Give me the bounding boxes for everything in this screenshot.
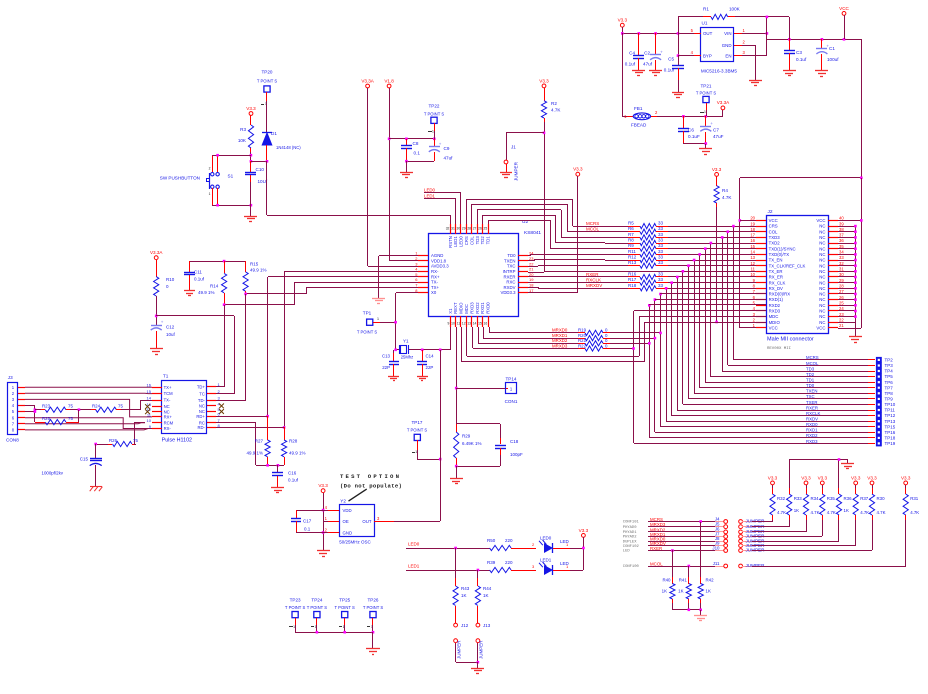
- svg-text:NC: NC: [819, 292, 825, 297]
- svg-text:RXD(0)/RX: RXD(0)/RX: [769, 292, 791, 297]
- svg-text:LED0: LED0: [540, 536, 552, 541]
- ground C7: [699, 149, 712, 155]
- ground C1: [815, 71, 828, 77]
- svg-text:RXER: RXER: [806, 405, 818, 410]
- svg-text:RXC: RXC: [506, 280, 515, 285]
- svg-text:TD3: TD3: [806, 366, 815, 371]
- svg-text:MRXDV: MRXDV: [586, 283, 602, 288]
- wire FB1 to V3.3A: [657, 110, 723, 118]
- svg-text:RXD3: RXD3: [806, 439, 818, 444]
- wire V3.3 to FB1: [622, 33, 627, 117]
- svg-text:0.1: 0.1: [414, 151, 421, 156]
- svg-text:RXD2: RXD2: [475, 302, 480, 314]
- svg-text:4.7K: 4.7K: [811, 510, 820, 515]
- jumper J4 (MCRS): [623, 516, 765, 524]
- ground R29: [450, 479, 463, 484]
- wire J3 pin7 to T1 RCM: [25, 423, 145, 424]
- svg-text:+: +: [161, 320, 164, 325]
- U2 pin 25 TD1: [484, 224, 491, 244]
- net label LED1 (U2): [424, 193, 456, 224]
- svg-text:10uf: 10uf: [166, 332, 176, 337]
- test point TP12: [806, 411, 896, 419]
- ground C11: [184, 291, 195, 296]
- J2 pin 16 TXD2: [750, 238, 780, 245]
- svg-text:33: 33: [658, 232, 664, 237]
- diode D1 1N4148 (NC): [262, 101, 301, 161]
- svg-text:5: 5: [12, 409, 15, 414]
- svg-text:3: 3: [743, 50, 746, 55]
- U2 pin 31 LED1: [451, 224, 458, 247]
- svg-text:33: 33: [658, 249, 664, 254]
- Y2 pin stubs: [325, 505, 394, 533]
- ground C2: [649, 71, 662, 76]
- resistor R27 49.9 1%: [246, 416, 270, 465]
- svg-text:V3.3: V3.3: [851, 475, 861, 480]
- svg-text:C15: C15: [80, 457, 89, 462]
- svg-text:C9: C9: [444, 146, 450, 151]
- capacitor C10 10uf: [245, 161, 268, 205]
- test point TP24: [307, 598, 328, 630]
- svg-text:1: 1: [704, 110, 706, 114]
- wire VCC rail: [767, 17, 861, 41]
- svg-text:TD2: TD2: [480, 236, 485, 245]
- svg-text:NC: NC: [199, 404, 205, 409]
- test point TP17: [407, 420, 428, 454]
- svg-text:NC: NC: [819, 275, 825, 280]
- svg-text:LED1: LED1: [540, 558, 552, 563]
- svg-text:T POINT S: T POINT S: [307, 605, 328, 610]
- wire R3 bottom to S1 top junction: [250, 152, 253, 163]
- svg-text:J13: J13: [483, 623, 491, 628]
- test point TP3: [806, 361, 893, 369]
- ground C3: [783, 71, 796, 76]
- svg-text:NC: NC: [819, 224, 825, 229]
- svg-text:VCC: VCC: [839, 6, 849, 11]
- U2 pin 5 RX+: [415, 272, 440, 279]
- svg-text:75: 75: [68, 416, 73, 421]
- wire TXEN row feed: [528, 260, 605, 262]
- svg-text:2: 2: [655, 110, 658, 115]
- jumper J10 (RXER): [623, 545, 765, 553]
- U2 pin 32 RSTN: [446, 224, 453, 248]
- svg-text:AGND: AGND: [431, 253, 443, 258]
- U2 pin 15 RXD1: [478, 302, 485, 327]
- J2 pin 15 TXD(1)/SYNC: [750, 244, 795, 251]
- wire J3 pin1 to T1 TX+: [25, 386, 152, 388]
- jumper J12: [454, 623, 469, 662]
- capacitor C17 0.1: [291, 510, 323, 533]
- svg-text:TXD2: TXD2: [769, 241, 781, 246]
- wire J10 row to R30: [671, 549, 872, 552]
- U2 pin 30 LED0: [457, 224, 464, 247]
- svg-text:R26: R26: [109, 438, 118, 443]
- svg-text:X1: X1: [448, 308, 453, 314]
- svg-text:4: 4: [691, 50, 694, 55]
- J2 pin 21 VCC: [816, 323, 844, 330]
- J2 pin 22 NC: [819, 318, 844, 325]
- svg-text:22: 22: [529, 261, 534, 266]
- U2 pin 9 X1: [448, 308, 453, 327]
- capacitor C18 100pF: [495, 424, 523, 466]
- svg-text:SW PUSHBUTTON: SW PUSHBUTTON: [160, 176, 200, 181]
- svg-text:NC: NC: [819, 320, 825, 325]
- svg-text:C3: C3: [796, 50, 802, 55]
- ground osc: [317, 551, 330, 557]
- svg-text:EN: EN: [725, 53, 731, 58]
- svg-text:NC: NC: [819, 246, 825, 251]
- svg-text:19: 19: [529, 277, 534, 282]
- svg-text:15: 15: [478, 322, 482, 326]
- svg-text:R30: R30: [877, 496, 886, 501]
- svg-text:PHYAD0: PHYAD0: [623, 526, 637, 530]
- capacitor C12 10uf: [151, 320, 176, 349]
- wire J2 pin40 VCC: [838, 178, 863, 329]
- U2 pin 6 TX-: [415, 277, 438, 284]
- svg-text:18: 18: [750, 227, 755, 232]
- svg-text:V3.3: V3.3: [579, 528, 589, 533]
- svg-text:X0: X0: [431, 290, 437, 295]
- power flag V3.3 (R4): [712, 167, 722, 186]
- wire R40-R42 common to ground: [672, 609, 707, 621]
- svg-text:TP24: TP24: [311, 598, 322, 603]
- wire TXC row feed: [528, 266, 605, 267]
- U2 pin 27 TD3: [473, 224, 480, 244]
- svg-text:7: 7: [12, 421, 15, 426]
- J2 pin 2 MDIO: [753, 318, 781, 325]
- resistor R26 75: [94, 423, 145, 447]
- power flag V3.3 (R31): [901, 475, 911, 485]
- net label MCOL: [586, 227, 605, 232]
- J2 pin 26 NC: [819, 295, 844, 302]
- svg-text:RX+: RX+: [164, 415, 173, 420]
- wire MDIO route: [461, 322, 766, 362]
- svg-text:2: 2: [209, 167, 211, 171]
- resistor R33 1K: [787, 460, 803, 527]
- svg-text:33: 33: [658, 238, 664, 243]
- ground J1: [500, 173, 512, 178]
- svg-text:V3.3A: V3.3A: [150, 250, 163, 255]
- wire net RXD2 to TP18: [648, 304, 871, 438]
- wire V3.3 output rail: [621, 32, 694, 35]
- svg-text:4.7K: 4.7K: [877, 510, 886, 515]
- svg-text:RXD(1): RXD(1): [769, 297, 784, 302]
- svg-text:V3.3: V3.3: [768, 475, 778, 480]
- resistor R30 4.7K: [869, 485, 885, 550]
- svg-text:7: 7: [415, 283, 418, 288]
- svg-text:R29: R29: [462, 434, 471, 439]
- resistor R44 1K: [475, 570, 491, 623]
- J2 pin 6 RXD(1): [753, 295, 784, 302]
- IC U2 KS8041: [429, 219, 542, 317]
- svg-text:0: 0: [166, 284, 169, 289]
- svg-text:25: 25: [484, 227, 488, 231]
- svg-text:R35: R35: [827, 496, 836, 501]
- svg-text:R10: R10: [166, 277, 175, 282]
- svg-text:TXEN: TXEN: [806, 389, 817, 394]
- svg-text:C12: C12: [166, 325, 175, 330]
- wire R10 to C12: [155, 296, 158, 325]
- resistor R39 220: [487, 560, 536, 573]
- svg-text:T POINT S: T POINT S: [257, 79, 278, 84]
- J2 pin 35 NC: [819, 244, 844, 251]
- svg-text:15: 15: [750, 244, 755, 249]
- svg-text:C5: C5: [668, 57, 674, 62]
- svg-text:BYP: BYP: [703, 53, 712, 58]
- J2 pin 10 RX_ER: [750, 272, 783, 279]
- wire R27 R28 common: [256, 464, 284, 473]
- U2 pin 2 VDD1.8: [415, 256, 446, 263]
- J2 pin 1 VCC: [753, 323, 778, 330]
- svg-text:REXT: REXT: [453, 302, 458, 314]
- jumper J7 (MRXD1): [623, 531, 765, 539]
- svg-text:PHYAD2: PHYAD2: [623, 536, 637, 540]
- svg-text:0.1uf: 0.1uf: [288, 478, 299, 483]
- svg-text:LED0: LED0: [424, 188, 436, 193]
- svg-text:0.1uf: 0.1uf: [664, 68, 675, 73]
- resistor R37 4.7K: [853, 485, 869, 546]
- wire jumpers to ground: [456, 661, 479, 668]
- svg-text:V3.3: V3.3: [573, 167, 583, 172]
- svg-text:J10: J10: [712, 545, 720, 550]
- svg-text:R41: R41: [679, 578, 688, 583]
- svg-text:TD2: TD2: [806, 372, 815, 377]
- test point TP1: [357, 311, 380, 335]
- resistor R15 49.9 1%: [243, 261, 267, 294]
- wire net TD3 to TP4: [721, 236, 871, 371]
- resistor R3 10K: [238, 121, 254, 152]
- svg-text:0.1: 0.1: [304, 527, 311, 532]
- wire C6 C7 common to ground: [683, 142, 707, 149]
- svg-text:13: 13: [750, 255, 755, 260]
- wire net RXD1 to TP16: [654, 298, 871, 432]
- wire TD3 row feed: [561, 237, 605, 239]
- wire net RXD0 to TP15: [659, 293, 871, 427]
- svg-text:22P: 22P: [426, 365, 434, 370]
- svg-text:RXD0: RXD0: [486, 302, 491, 314]
- svg-text:R32: R32: [777, 496, 786, 501]
- wire U2 RXD3 down: [488, 332, 490, 334]
- svg-text:33: 33: [658, 243, 664, 248]
- svg-text:R25: R25: [42, 416, 51, 421]
- svg-text:R27: R27: [255, 439, 264, 444]
- svg-text:CONF102: CONF102: [623, 545, 640, 549]
- svg-text:COL: COL: [469, 236, 474, 245]
- svg-text:NC: NC: [819, 252, 825, 257]
- svg-text:12: 12: [750, 261, 755, 266]
- wire U2 RXD2 down: [482, 332, 484, 334]
- svg-text:R4: R4: [722, 188, 728, 193]
- test point TP22: [424, 104, 445, 134]
- svg-text:18: 18: [529, 283, 534, 288]
- wire RXCLK feed: [528, 281, 605, 284]
- wire 1K pulldown bracket to ground: [789, 458, 854, 468]
- resistor R24 75: [91, 400, 152, 412]
- svg-text:R17: R17: [628, 277, 637, 282]
- wire net RXD3 to TP19: [634, 311, 872, 444]
- jumper J8 (MRXD0): [623, 536, 765, 544]
- svg-text:4: 4: [415, 267, 418, 272]
- svg-text:TP11: TP11: [885, 408, 896, 413]
- svg-text:VCC: VCC: [769, 218, 778, 223]
- wire V3.3 to VDD3.3 pin: [528, 292, 578, 294]
- resistor R5 33: [605, 221, 766, 229]
- svg-text:TX_EN: TX_EN: [769, 258, 783, 263]
- capacitor C8 0.1: [401, 139, 420, 161]
- wire crystal row to X1: [394, 327, 451, 351]
- svg-text:R16: R16: [628, 272, 637, 277]
- svg-text:LED1: LED1: [424, 193, 436, 198]
- capacitor C15 1000pf/2kv: [42, 444, 102, 487]
- svg-text:T POINT S: T POINT S: [696, 91, 717, 96]
- wire REXT down: [455, 327, 458, 424]
- J2 pin 19 CRS: [750, 221, 777, 228]
- svg-text:2: 2: [325, 527, 328, 532]
- oscillator Y2 50/25MHz OSC: [339, 498, 374, 544]
- power flag V1.8: [384, 78, 394, 261]
- svg-text:1: 1: [743, 28, 746, 33]
- J2 pin 12 TX_CLK/REF_CLK: [750, 261, 805, 268]
- wire J3 pin4 pin5 termination: [25, 406, 36, 423]
- svg-text:R13: R13: [628, 260, 637, 265]
- svg-text:C2: C2: [644, 51, 650, 56]
- wire J4 row to R32: [699, 520, 772, 523]
- svg-text:22: 22: [839, 318, 844, 323]
- pin 2 GND stub: [734, 40, 746, 46]
- svg-text:NC: NC: [819, 263, 825, 268]
- J2 pin 39 NC: [819, 221, 844, 228]
- svg-text:11: 11: [457, 322, 461, 326]
- svg-text:S1: S1: [228, 174, 234, 179]
- svg-text:TXEN: TXEN: [504, 258, 515, 263]
- resistor R13 33: [605, 260, 766, 268]
- svg-text:11: 11: [751, 267, 756, 272]
- svg-text:1: 1: [432, 130, 434, 134]
- svg-text:40: 40: [839, 216, 844, 221]
- svg-text:0.1uf: 0.1uf: [796, 57, 807, 62]
- svg-text:COL: COL: [769, 229, 778, 234]
- svg-text:RXD1: RXD1: [480, 302, 485, 314]
- J2 pin 5 RXD2: [753, 301, 781, 308]
- wire MRXDV feed: [528, 287, 605, 289]
- svg-text:TP17: TP17: [412, 420, 423, 425]
- svg-text:MDC: MDC: [464, 304, 469, 314]
- svg-text:4: 4: [325, 505, 328, 510]
- wire net TD2 to TP5: [710, 242, 871, 377]
- svg-text:TP20: TP20: [262, 70, 273, 75]
- resistor R10 0: [154, 277, 175, 296]
- ground (reset): [244, 205, 257, 222]
- svg-text:RX+: RX+: [431, 274, 440, 279]
- J2 pin 27 NC: [819, 289, 844, 296]
- svg-text:R42: R42: [706, 578, 715, 583]
- svg-text:26: 26: [478, 227, 482, 231]
- svg-text:33: 33: [658, 277, 664, 282]
- svg-text:R5: R5: [628, 221, 634, 226]
- resistor R18 33: [605, 283, 766, 291]
- svg-text:50/25MHz OSC: 50/25MHz OSC: [339, 540, 371, 545]
- svg-text:NC: NC: [819, 314, 825, 319]
- svg-text:MDIO: MDIO: [769, 320, 781, 325]
- svg-text:AVDD3.3: AVDD3.3: [431, 264, 449, 269]
- svg-text:TP21: TP21: [701, 84, 712, 89]
- U2 pin 13 RXD3: [467, 302, 474, 327]
- wire TD1 row feed: [550, 248, 605, 250]
- J2 pin 40 VCC: [816, 216, 844, 223]
- J2 pin 24 NC: [819, 306, 844, 313]
- jumper J5 (MRXD3): [623, 522, 765, 530]
- svg-text:100pF: 100pF: [510, 452, 523, 457]
- power flag V3.3 (regulator output): [618, 18, 628, 33]
- svg-text:TX_ER: TX_ER: [769, 269, 783, 274]
- wire net TD0 to TP7: [698, 253, 871, 388]
- LED LED1: [539, 558, 583, 575]
- svg-text:220: 220: [505, 538, 513, 543]
- svg-text:TX_CLK/REF_CLK: TX_CLK/REF_CLK: [769, 263, 806, 268]
- jumper J13: [476, 623, 491, 662]
- power flag V3.3 (INTRP pull-up): [539, 78, 549, 101]
- svg-text:49.9 1%: 49.9 1%: [289, 451, 306, 456]
- svg-text:MIC5216-3.3BM5: MIC5216-3.3BM5: [701, 69, 737, 74]
- U2 pin 20 RXER: [504, 272, 535, 279]
- svg-text:TP4: TP4: [885, 369, 894, 374]
- svg-text:C13: C13: [382, 354, 391, 359]
- J2 pin 30 NC: [819, 272, 844, 279]
- test point TP13: [806, 417, 896, 425]
- svg-text:RXDV: RXDV: [504, 285, 516, 290]
- net label LED0 (U2): [424, 188, 461, 225]
- wire S1 bottom to C10 bottom: [212, 204, 252, 207]
- J2 pin 37 NC: [819, 233, 844, 240]
- svg-text:CON1: CON1: [505, 399, 518, 404]
- U2 pin 22 TXC: [507, 261, 534, 268]
- power flag VCC: [839, 6, 849, 39]
- wire S1 top to R3 bottom: [212, 154, 251, 157]
- test point TP6: [806, 378, 893, 386]
- svg-text:V3.3: V3.3: [318, 483, 328, 488]
- net label MCRS: [586, 221, 605, 227]
- wire J3 pin8 row: [25, 429, 152, 430]
- svg-text:KS8041: KS8041: [524, 230, 541, 236]
- resistor R34 4.7K: [803, 485, 819, 532]
- wire TD2 over-route: [483, 215, 587, 243]
- svg-text:TP14: TP14: [506, 377, 517, 382]
- svg-text:9: 9: [448, 322, 450, 326]
- svg-text:49.9 1%: 49.9 1%: [198, 290, 215, 295]
- wire net RXDV to TP13: [665, 287, 871, 422]
- capacitor C6 0.1uF: [678, 116, 700, 144]
- svg-text:4.7K: 4.7K: [827, 510, 836, 515]
- test point TP26: [363, 598, 384, 630]
- svg-text:RXD2: RXD2: [769, 303, 781, 308]
- ground TP23-26: [366, 632, 380, 655]
- svg-text:TP13: TP13: [885, 419, 896, 424]
- J2 pin 3 MDC: [753, 312, 779, 319]
- svg-text:1000pf/2kv: 1000pf/2kv: [42, 471, 64, 476]
- svg-text:21: 21: [529, 267, 534, 272]
- svg-text:V3.3: V3.3: [712, 167, 722, 172]
- U2 pin 24 TD0: [507, 251, 534, 258]
- test point TP14 CON1: [456, 377, 518, 405]
- svg-text:C6: C6: [688, 128, 694, 133]
- transformer T1 Pulse H1102: [145, 374, 224, 444]
- capacitor C2 47uf: [643, 33, 663, 70]
- J2 pin 33 NC: [819, 255, 844, 262]
- chassis ground C15: [90, 487, 103, 492]
- svg-text:REV00X MII: REV00X MII: [767, 347, 791, 351]
- U2 pin 7 TX+: [415, 283, 439, 290]
- svg-text:NC: NC: [819, 303, 825, 308]
- wire R4 to MDIO row: [715, 207, 718, 323]
